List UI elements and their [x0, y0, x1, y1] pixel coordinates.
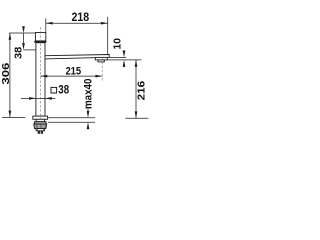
spout arm	[45, 55, 109, 59]
svg-text:306: 306	[1, 62, 12, 85]
lower nut layer	[36, 129, 45, 131]
aerator	[98, 60, 104, 62]
nut knurl lines	[35, 124, 45, 128]
dim sq38 line	[21, 97, 55, 99]
arrow 218 right	[101, 22, 108, 25]
mounting nut	[34, 124, 47, 129]
head (mixer cartridge head)	[35, 33, 45, 41]
arrow 306 bottom (down)	[9, 111, 12, 118]
arrow sq38 left (pointing right, outside)	[29, 97, 36, 100]
arrow 306 top (up)	[9, 33, 12, 40]
dim 215 line	[41, 75, 103, 77]
dim 306 line	[9, 33, 11, 117]
arrow max40 upper (down)	[87, 111, 90, 118]
arrow max40 lower (up)	[87, 122, 90, 129]
dim 306 top extension	[9, 32, 36, 34]
dim max40 line upper	[87, 109, 89, 113]
dim 218 extension left	[45, 18, 47, 32]
arrow 38 top (down, outside)	[22, 26, 25, 33]
deck line right under 216	[125, 117, 148, 119]
dim 10 ext line outlet underside	[107, 59, 141, 61]
dim max40 line lower	[87, 127, 89, 129]
deck line right near base	[48, 117, 95, 119]
arrow 10 upper (down)	[123, 51, 126, 58]
svg-text:215: 215	[65, 66, 81, 78]
arrow 38 bottom (down, inside)	[22, 43, 25, 50]
dim 38 line upper tail	[23, 27, 25, 29]
svg-text:38: 38	[14, 46, 25, 59]
washer	[34, 122, 46, 124]
dim 38 line middle	[23, 33, 25, 45]
arrow 215 right	[95, 75, 102, 78]
dim 10 ext line arm underside	[109, 56, 126, 58]
dim 218 line	[46, 22, 108, 24]
dim 216 line	[135, 60, 137, 118]
arrow 10 lower (up)	[123, 60, 126, 67]
dim 10 line lower	[123, 66, 125, 67]
shank	[36, 119, 45, 121]
counter underside line	[48, 121, 95, 123]
dim 38 lower extension	[24, 49, 36, 51]
svg-text:218: 218	[71, 11, 89, 24]
svg-text:max40: max40	[82, 79, 94, 110]
base flange	[33, 116, 48, 119]
svg-text:10: 10	[113, 38, 124, 50]
arrow sq38 right (pointing left, outside)	[45, 97, 52, 100]
arrow 218 left	[46, 22, 53, 25]
dim 10 line upper	[123, 50, 125, 51]
outlet	[95, 57, 107, 60]
dim 218 extension right	[107, 17, 109, 55]
deck line left	[2, 116, 25, 118]
body column	[36, 43, 45, 116]
svg-text:38: 38	[58, 83, 69, 97]
centerline body	[39, 27, 41, 119]
arrow 216 bottom (down)	[135, 111, 138, 118]
arrow 216 top (up)	[135, 60, 138, 67]
square symbol of sq38	[51, 87, 57, 93]
tail hose studs	[38, 131, 40, 134]
svg-text:216: 216	[136, 80, 147, 100]
collar band	[34, 41, 46, 43]
centerline outlet	[101, 58, 103, 81]
arrow 215 left	[41, 75, 48, 78]
